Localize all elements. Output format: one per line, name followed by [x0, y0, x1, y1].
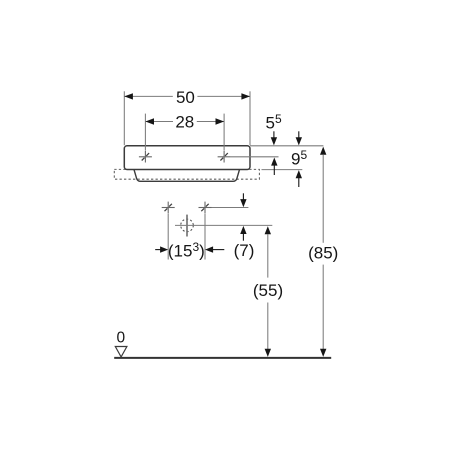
dim 15.3 left arrow	[155, 246, 168, 252]
svg-text:(153): (153)	[168, 240, 205, 261]
tap hole cross right	[218, 151, 231, 163]
dimension line 50	[124, 95, 250, 97]
drain vertical axis	[186, 215, 188, 237]
height line 85	[320, 147, 326, 357]
svg-text:(85): (85)	[308, 244, 338, 263]
leader line from tap holes	[231, 156, 279, 158]
extension line left of dim 15.3	[167, 214, 169, 260]
arrow right of dim 28	[216, 118, 225, 124]
extension line right of dim 28	[223, 114, 225, 151]
dim 5.5 lower arrow	[271, 158, 277, 176]
dimension line 28	[145, 121, 224, 123]
basin front outline	[124, 146, 250, 170]
lower fixing cross left	[162, 202, 175, 214]
dim 9.5 lower arrow	[296, 170, 302, 187]
arrow right of dim 50	[241, 93, 250, 99]
bowl lower silhouette	[134, 170, 240, 182]
arrow left of dim 28	[145, 118, 154, 124]
extension line left of dim 28	[144, 114, 146, 151]
extension line left of dim 50	[123, 91, 125, 145]
svg-text:0: 0	[116, 329, 125, 346]
dim 9.5 upper arrow	[296, 131, 302, 145]
extension line right of dim 15.3	[204, 214, 206, 260]
dim 15.3 right arrow	[205, 246, 224, 252]
extension line right of dim 50	[249, 91, 251, 145]
floor level symbol triangle	[115, 347, 127, 357]
dim 7 lower arrow	[240, 226, 246, 241]
leader line from basin bottom	[262, 169, 303, 171]
height line 55	[265, 226, 271, 357]
dim 7 upper arrow	[240, 193, 246, 207]
svg-text:(55): (55)	[253, 281, 283, 300]
leader line from right fixing cross	[212, 207, 249, 209]
drain dashed circle	[181, 219, 194, 232]
svg-text:50: 50	[176, 88, 195, 107]
dim 5.5 upper arrow	[271, 131, 277, 145]
leader line from basin top edge to height line	[250, 145, 323, 147]
floor line	[114, 357, 331, 359]
arrow left of dim 50	[124, 93, 133, 99]
svg-text:(7): (7)	[234, 241, 255, 260]
lower fixing cross right	[199, 202, 212, 214]
tap hole cross left	[139, 151, 152, 163]
dashed hidden outline (basin body behind)	[114, 169, 259, 179]
drain horizontal axis / leader	[175, 224, 272, 226]
svg-text:28: 28	[175, 113, 194, 132]
